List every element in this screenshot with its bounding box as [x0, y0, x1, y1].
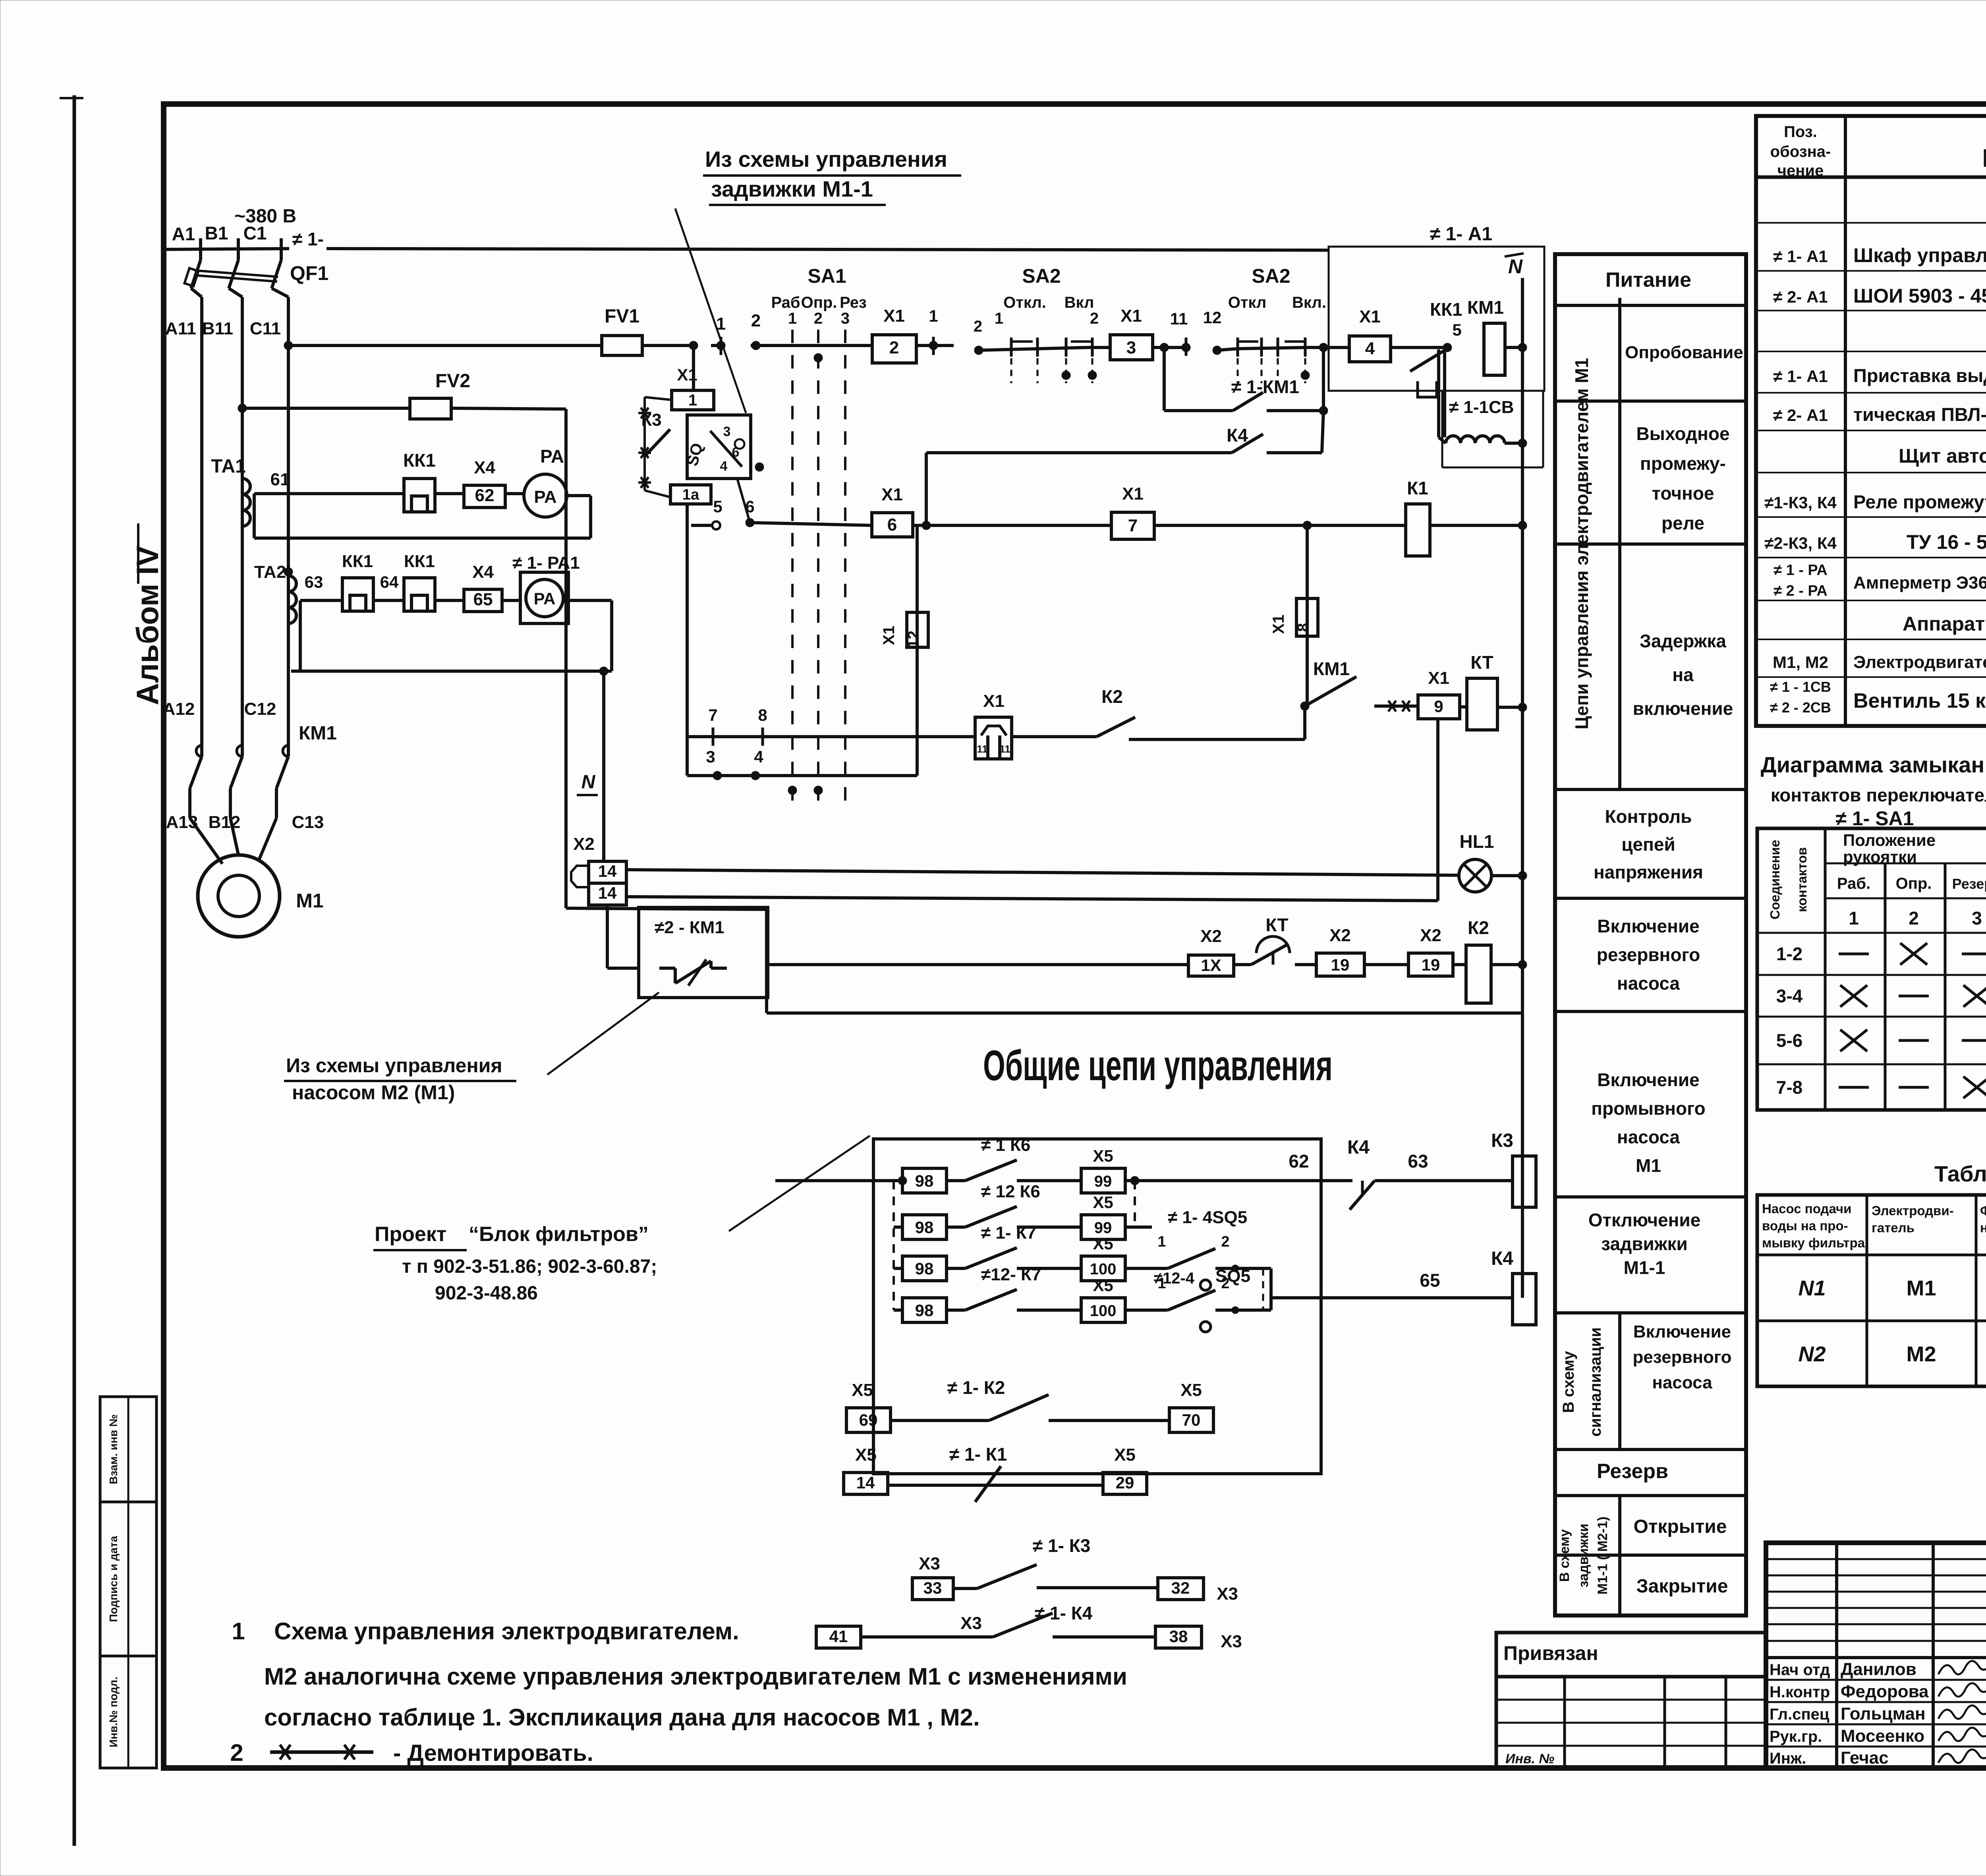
svg-text:Х2: Х2 [1329, 926, 1351, 945]
svg-text:Х3: Х3 [960, 1614, 982, 1633]
svg-text:4: 4 [1365, 339, 1375, 358]
svg-text:61: 61 [270, 470, 290, 489]
svg-text:Открытие: Открытие [1634, 1516, 1727, 1537]
svg-text:1: 1 [1849, 908, 1859, 928]
svg-text:Х3: Х3 [919, 1554, 940, 1573]
svg-text:12: 12 [1203, 308, 1222, 327]
svg-text:≠ 1- А1: ≠ 1- А1 [1773, 247, 1828, 266]
svg-text:Х2: Х2 [1420, 926, 1441, 945]
svg-text:Приставка выдержки времени пне: Приставка выдержки времени пневма- [1853, 365, 1986, 386]
svg-text:Шкаф управления: Шкаф управления [1853, 244, 1986, 266]
svg-text:2: 2 [889, 338, 899, 357]
svg-text:промежу-: промежу- [1640, 453, 1726, 474]
svg-text:5: 5 [713, 497, 722, 516]
svg-text:Х5: Х5 [1093, 1276, 1113, 1295]
svg-text:ТА2: ТА2 [254, 562, 286, 582]
svg-text:69: 69 [859, 1411, 878, 1429]
svg-text:В схему: В схему [1557, 1529, 1572, 1582]
svg-text:контактов: контактов [1795, 847, 1809, 912]
svg-text:64: 64 [380, 573, 399, 591]
svg-text:Мосеенко: Мосеенко [1841, 1726, 1924, 1746]
svg-text:14: 14 [598, 862, 617, 880]
svg-text:напряжения: напряжения [1594, 862, 1703, 882]
svg-text:Схема управления электродвиг: Схема управления электродвигателем. [274, 1618, 739, 1644]
svg-text:Х3: Х3 [1217, 1584, 1238, 1604]
svg-text:РА: РА [534, 589, 556, 608]
svg-text:Электродви-: Электродви- [1872, 1203, 1954, 1218]
svg-text:на: на [1672, 664, 1694, 685]
svg-text:Реле промежуточное РПУ-23622: Реле промежуточное РПУ-2362201У3 [1853, 491, 1986, 512]
svg-text:3: 3 [1126, 338, 1136, 357]
svg-text:реле: реле [1661, 513, 1704, 533]
svg-text:Н.контр: Н.контр [1770, 1683, 1830, 1701]
svg-text:насоса: насоса [1617, 1127, 1680, 1147]
svg-text:4: 4 [720, 459, 728, 474]
svg-text:К4: К4 [1227, 425, 1248, 446]
svg-text:≠ 2- А1: ≠ 2- А1 [1773, 288, 1828, 306]
svg-text:Х5: Х5 [1180, 1380, 1202, 1400]
svg-text:1Х: 1Х [1201, 956, 1221, 975]
svg-text:9: 9 [1434, 697, 1443, 716]
svg-text:63: 63 [305, 573, 323, 591]
svg-text:2: 2 [974, 318, 982, 335]
svg-text:ШОИ 5903 - 4574ЛУХЛ4: ШОИ 5903 - 4574ЛУХЛ4 [1853, 285, 1986, 307]
svg-text:Рук.гр.: Рук.гр. [1770, 1728, 1822, 1745]
svg-text:насоса: насоса [1652, 1373, 1712, 1392]
svg-text:Х1: Х1 [1122, 484, 1144, 504]
svg-text:Положение: Положение [1843, 831, 1936, 849]
svg-text:N2: N2 [1798, 1342, 1826, 1366]
svg-text:N1: N1 [1798, 1276, 1826, 1300]
svg-text:70: 70 [1182, 1411, 1201, 1429]
svg-text:С13: С13 [292, 813, 324, 832]
svg-text:цепей: цепей [1621, 834, 1675, 855]
svg-text:Инж.: Инж. [1770, 1750, 1806, 1767]
svg-text:Диаграмма замыкания: Диаграмма замыкания [1761, 752, 1986, 777]
svg-text:≠ 1-1СВ: ≠ 1-1СВ [1449, 398, 1514, 417]
svg-text:≠ 1- К1: ≠ 1- К1 [949, 1444, 1007, 1465]
svg-text:Питание: Питание [1605, 268, 1691, 291]
svg-text:Закрытие: Закрытие [1636, 1576, 1728, 1597]
svg-text:2: 2 [751, 311, 761, 330]
svg-text:≠1-К3, К4: ≠1-К3, К4 [1764, 493, 1837, 512]
svg-text:38: 38 [1169, 1627, 1188, 1646]
svg-text:резервного: резервного [1632, 1347, 1731, 1367]
svg-text:19: 19 [1422, 955, 1440, 974]
svg-text:С12: С12 [244, 699, 276, 719]
svg-text:62: 62 [475, 486, 495, 505]
svg-text:Нач отд: Нач отд [1770, 1661, 1830, 1679]
svg-text:Х2: Х2 [1200, 926, 1222, 946]
svg-text:2: 2 [814, 310, 823, 327]
svg-text:Вкл.: Вкл. [1292, 294, 1326, 311]
svg-text:98: 98 [915, 1218, 934, 1237]
svg-text:КМ1: КМ1 [1467, 297, 1504, 318]
svg-text:Поз.: Поз. [1784, 123, 1817, 141]
svg-text:Цепи управления электродвиг: Цепи управления электродвигателем М1 [1571, 358, 1592, 730]
svg-text:Х5: Х5 [1114, 1445, 1136, 1465]
svg-text:Амперметр Э3650 ÷ 500 А 50 Гц: Амперметр Э3650 ÷ 500 А 50 Гц,ТУ,043718 … [1853, 573, 1986, 593]
svg-text:8: 8 [1294, 623, 1312, 632]
svg-text:задвижки: задвижки [1576, 1524, 1591, 1588]
svg-text:воды на про-: воды на про- [1762, 1218, 1848, 1233]
svg-text:11: 11 [999, 743, 1010, 755]
svg-text:Вкл: Вкл [1064, 294, 1094, 311]
svg-text:4: 4 [754, 747, 763, 766]
svg-text:М1, М2: М1, М2 [1773, 653, 1828, 672]
svg-text:Вентиль 15 кч 888 р СВМ: Вентиль 15 кч 888 р СВМ [1853, 689, 1986, 712]
svg-text:1: 1 [788, 310, 797, 327]
svg-text:19: 19 [1331, 955, 1350, 974]
svg-text:SA1: SA1 [808, 265, 846, 287]
svg-text:резервного: резервного [1597, 944, 1700, 965]
svg-text:2: 2 [1909, 908, 1919, 928]
svg-text:Соединение: Соединение [1768, 840, 1782, 919]
svg-text:КМ1: КМ1 [299, 723, 337, 744]
svg-text:Х5: Х5 [1093, 1193, 1113, 1212]
svg-text:КК1: КК1 [342, 552, 373, 571]
svg-text:≠ 1- К7: ≠ 1- К7 [981, 1223, 1036, 1243]
svg-text:включение: включение [1633, 698, 1733, 719]
svg-text:Откл.: Откл. [1003, 294, 1046, 311]
svg-text:Альбом IV: Альбом IV [130, 546, 165, 705]
svg-text:задвижки: задвижки [1601, 1233, 1688, 1254]
svg-text:Х1: Х1 [883, 306, 905, 326]
svg-text:Подпись и дата: Подпись и дата [107, 1536, 120, 1622]
svg-text:РА: РА [540, 446, 564, 467]
svg-text:~380 В: ~380 В [234, 206, 296, 227]
svg-text:мывку фильтра: мывку фильтра [1762, 1235, 1865, 1250]
svg-text:≠ 1- К4: ≠ 1- К4 [1035, 1603, 1093, 1623]
svg-text:N: N [582, 772, 596, 793]
svg-text:“Блок фильтров”: “Блок фильтров” [469, 1223, 649, 1246]
svg-text:2: 2 [1090, 310, 1099, 327]
svg-text:11: 11 [1170, 309, 1188, 328]
svg-text:≠ 1 - РА: ≠ 1 - РА [1773, 562, 1828, 579]
svg-text:≠ 1-: ≠ 1- [292, 229, 324, 249]
svg-text:рукоятки: рукоятки [1843, 847, 1917, 866]
svg-text:КТ: КТ [1470, 652, 1493, 673]
svg-text:Х1: Х1 [1428, 668, 1449, 688]
svg-text:3: 3 [1972, 908, 1982, 928]
svg-text:2: 2 [1221, 1233, 1229, 1250]
svg-text:≠12-4: ≠12-4 [1154, 1270, 1195, 1287]
svg-text:Х4: Х4 [472, 562, 494, 582]
svg-text:Взам. инв №: Взам. инв № [107, 1415, 120, 1484]
svg-text:промывного: промывного [1591, 1098, 1706, 1119]
svg-text:7-8: 7-8 [1776, 1077, 1802, 1098]
svg-text:Резерв: Резерв [1597, 1460, 1668, 1483]
svg-text:62: 62 [1289, 1151, 1309, 1172]
svg-text:Включение: Включение [1597, 1069, 1700, 1090]
svg-text:29: 29 [1116, 1473, 1134, 1492]
svg-text:КТ: КТ [1265, 915, 1288, 935]
svg-text:1: 1 [232, 1618, 245, 1644]
svg-text:≠ 2 - РА: ≠ 2 - РА [1773, 583, 1828, 599]
svg-text:98: 98 [915, 1259, 934, 1278]
svg-text:Из схемы управления: Из схемы управления [705, 147, 947, 172]
svg-text:А1: А1 [172, 224, 195, 244]
svg-text:≠ 1-КМ1: ≠ 1-КМ1 [1231, 376, 1299, 397]
svg-text:Инв. №: Инв. № [1505, 1751, 1554, 1766]
svg-text:≠ 1 К6: ≠ 1 К6 [981, 1135, 1030, 1155]
svg-text:Включение: Включение [1633, 1322, 1731, 1341]
svg-text:≠ 1- К3: ≠ 1- К3 [1033, 1535, 1090, 1556]
svg-text:точное: точное [1652, 483, 1714, 504]
svg-text:- Демонтировать.: - Демонтировать. [393, 1740, 593, 1766]
svg-text:Х5: Х5 [852, 1380, 873, 1400]
svg-text:32: 32 [1171, 1579, 1190, 1597]
svg-text:1: 1 [995, 310, 1003, 327]
svg-text:Х1: Х1 [1270, 615, 1287, 634]
svg-text:Наименование: Наименование [1982, 144, 1986, 172]
svg-text:КК1: КК1 [403, 450, 436, 471]
svg-text:насоса: насоса [1617, 973, 1680, 994]
svg-text:1-2: 1-2 [1776, 944, 1802, 964]
svg-text:≠12- К7: ≠12- К7 [981, 1265, 1041, 1284]
svg-text:100: 100 [1090, 1260, 1117, 1278]
svg-text:1а: 1а [682, 486, 699, 503]
svg-text:≠ 1- 4SQ5: ≠ 1- 4SQ5 [1168, 1208, 1247, 1227]
svg-text:HL1: HL1 [1460, 831, 1494, 852]
svg-text:QF1: QF1 [290, 262, 328, 284]
svg-text:задвижки М1-1: задвижки М1-1 [711, 176, 873, 201]
svg-text:3: 3 [706, 747, 715, 766]
svg-text:Задержка: Задержка [1640, 631, 1726, 651]
svg-text:Функциональ: Функциональ [1980, 1203, 1986, 1218]
svg-text:Инв.№ подл.: Инв.№ подл. [107, 1677, 120, 1747]
svg-text:98: 98 [915, 1172, 934, 1190]
svg-text:Х5: Х5 [1093, 1146, 1113, 1165]
svg-text:100: 100 [1090, 1302, 1117, 1320]
svg-text:Х1: Х1 [677, 365, 697, 384]
svg-text:ная группа: ная группа [1980, 1220, 1986, 1235]
svg-text:гатель: гатель [1872, 1220, 1915, 1235]
svg-text:Раб.: Раб. [1837, 875, 1870, 892]
svg-text:6: 6 [887, 515, 897, 535]
svg-text:В11: В11 [202, 319, 233, 338]
svg-text:Х3: Х3 [1221, 1632, 1242, 1651]
svg-text:КК1: КК1 [404, 552, 435, 571]
svg-text:≠ 1- А1: ≠ 1- А1 [1430, 224, 1492, 245]
svg-text:К4: К4 [1491, 1248, 1513, 1269]
svg-text:Гольцман: Гольцман [1841, 1704, 1926, 1724]
svg-text:Резерв: Резерв [1952, 876, 1986, 892]
svg-text:1: 1 [688, 392, 697, 409]
svg-text:М1: М1 [1906, 1276, 1936, 1300]
svg-text:Таблица 1: Таблица 1 [1934, 1161, 1986, 1186]
svg-text:≠ 12 К6: ≠ 12 К6 [981, 1182, 1040, 1201]
svg-text:902-3-48.86: 902-3-48.86 [435, 1283, 538, 1304]
svg-text:К4: К4 [1347, 1137, 1370, 1158]
svg-text:тическая ПВЛ-1104 ТУ16 - 523.: тическая ПВЛ-1104 ТУ16 - 523.554 - 78 [1853, 404, 1986, 425]
svg-text:Х1: Х1 [1121, 306, 1142, 326]
svg-text:3-4: 3-4 [1776, 986, 1803, 1006]
svg-text:Насос подачи: Насос подачи [1762, 1201, 1851, 1216]
svg-text:Х4: Х4 [474, 458, 495, 477]
svg-text:FV2: FV2 [435, 371, 470, 392]
svg-text:ТА1: ТА1 [211, 456, 246, 477]
svg-text:3: 3 [841, 310, 850, 327]
svg-text:К3: К3 [1491, 1130, 1513, 1151]
svg-text:1: 1 [929, 307, 938, 325]
svg-text:Рез: Рез [840, 294, 867, 311]
svg-text:41: 41 [829, 1627, 848, 1646]
svg-text:Гл.спец: Гл.спец [1770, 1706, 1830, 1723]
svg-text:ТУ 16 - 523 . 331 - 78: ТУ 16 - 523 . 331 - 78 [1907, 531, 1986, 553]
svg-text:Х1: Х1 [983, 691, 1005, 711]
svg-text:≠ 2 - 2СВ: ≠ 2 - 2СВ [1770, 699, 1831, 716]
svg-text:14: 14 [856, 1473, 875, 1492]
svg-text:контактов переключателя: контактов переключателя [1771, 785, 1986, 805]
svg-text:N: N [1508, 255, 1523, 278]
svg-text:Опробование: Опробование [1625, 343, 1743, 362]
svg-text:≠ 1- К2: ≠ 1- К2 [947, 1377, 1005, 1398]
svg-text:Контроль: Контроль [1605, 806, 1692, 827]
svg-text:≠ 1- SA1: ≠ 1- SA1 [1836, 807, 1914, 830]
svg-text:КМ1: КМ1 [1313, 658, 1350, 679]
svg-text:А12: А12 [163, 699, 195, 719]
svg-text:≠ 2- А1: ≠ 2- А1 [1773, 406, 1828, 425]
svg-text:SA2: SA2 [1022, 265, 1061, 287]
svg-text:7: 7 [708, 706, 717, 724]
svg-text:Опр.: Опр. [1896, 875, 1932, 892]
svg-text:Х1: Х1 [880, 626, 898, 645]
svg-text:65: 65 [473, 590, 493, 609]
svg-text:Проект: Проект [375, 1223, 446, 1246]
svg-text:Из схемы управления: Из схемы управления [286, 1054, 502, 1077]
svg-text:обозна-: обозна- [1770, 143, 1831, 160]
svg-text:SA2: SA2 [1252, 265, 1290, 287]
svg-text:К2: К2 [1468, 917, 1489, 938]
svg-text:98: 98 [915, 1301, 934, 1320]
svg-text:т п 902-3-51.86; 902-3-60.87;: т п 902-3-51.86; 902-3-60.87; [402, 1256, 657, 1277]
svg-text:7: 7 [1128, 516, 1138, 535]
svg-text:А11: А11 [165, 319, 196, 338]
svg-text:РА: РА [534, 487, 556, 507]
svg-text:В12: В12 [209, 813, 241, 832]
svg-text:Аппаратура по месту: Аппаратура по месту [1903, 613, 1986, 635]
svg-text:Электродвигатель 4А-355М-8, 1: Электродвигатель 4А-355М-8, 160 квт ~380… [1853, 652, 1986, 672]
svg-text:63: 63 [1408, 1151, 1428, 1172]
svg-text:Выходное: Выходное [1636, 423, 1729, 444]
svg-text:Данилов: Данилов [1841, 1660, 1916, 1679]
svg-text:≠ 1 - 1СВ: ≠ 1 - 1СВ [1770, 679, 1831, 695]
svg-text:Х5: Х5 [1093, 1234, 1113, 1253]
svg-text:Х1: Х1 [881, 485, 903, 504]
svg-text:В схему: В схему [1560, 1351, 1577, 1413]
svg-text:11: 11 [977, 743, 988, 755]
svg-text:С11: С11 [250, 319, 281, 338]
svg-text:М2 аналогична схеме управлен: М2 аналогична схеме управления электродв… [264, 1663, 1127, 1690]
svg-text:≠2 - КМ1: ≠2 - КМ1 [655, 918, 724, 937]
svg-text:Федорова: Федорова [1841, 1682, 1929, 1701]
svg-text:К2: К2 [1101, 686, 1123, 707]
svg-text:М2: М2 [1906, 1342, 1936, 1366]
svg-text:1: 1 [1157, 1233, 1166, 1250]
svg-text:сигнализации: сигнализации [1587, 1327, 1604, 1436]
svg-text:Общие цепи управления: Общие цепи управления [983, 1041, 1333, 1089]
svg-text:Включение: Включение [1597, 916, 1700, 936]
svg-text:Откл: Откл [1228, 294, 1267, 311]
svg-text:12: 12 [905, 631, 922, 648]
svg-text:Х1: Х1 [1359, 307, 1381, 326]
svg-text:Х5: Х5 [855, 1445, 877, 1465]
svg-text:Х2: Х2 [573, 834, 595, 854]
svg-text:М1-1: М1-1 [1624, 1257, 1665, 1278]
svg-text:8: 8 [758, 706, 767, 724]
svg-text:33: 33 [923, 1579, 942, 1597]
svg-text:М1: М1 [296, 890, 323, 912]
svg-text:14: 14 [598, 884, 617, 902]
svg-text:Раб: Раб [771, 294, 800, 311]
svg-text:В1: В1 [205, 223, 228, 243]
svg-text:2: 2 [230, 1739, 243, 1766]
svg-text:5: 5 [1452, 320, 1461, 339]
svg-text:Щит автоматизации: Щит автоматизации [1899, 445, 1986, 467]
svg-text:≠ 1- РА1: ≠ 1- РА1 [512, 553, 580, 573]
svg-text:≠2-К3, К4: ≠2-К3, К4 [1764, 534, 1837, 552]
svg-text:Опр.: Опр. [801, 294, 837, 311]
svg-text:согласно таблице 1. Эксплика: согласно таблице 1. Экспликация дана для… [264, 1704, 980, 1731]
svg-text:насосом М2 (М1): насосом М2 (М1) [292, 1081, 455, 1104]
svg-text:99: 99 [1094, 1173, 1112, 1190]
svg-text:К1: К1 [1407, 478, 1428, 498]
svg-text:≠ 1- А1: ≠ 1- А1 [1773, 367, 1828, 386]
svg-text:Отключение: Отключение [1588, 1210, 1701, 1230]
svg-text:Гечас: Гечас [1841, 1748, 1889, 1768]
svg-text:5-6: 5-6 [1776, 1030, 1802, 1051]
svg-text:3: 3 [723, 424, 731, 439]
svg-text:FV1: FV1 [605, 306, 639, 327]
svg-text:М1-1 ( М2-1): М1-1 ( М2-1) [1595, 1517, 1610, 1594]
svg-text:чение: чение [1777, 162, 1824, 179]
svg-text:65: 65 [1420, 1270, 1440, 1291]
svg-text:КК1: КК1 [1430, 299, 1462, 320]
svg-text:М1: М1 [1636, 1155, 1661, 1176]
svg-text:Привязан: Привязан [1503, 1642, 1598, 1664]
